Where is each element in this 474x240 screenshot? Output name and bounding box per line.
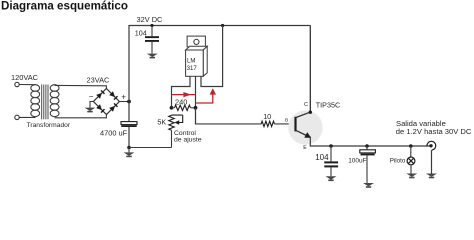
output terminal jack xyxy=(427,141,436,150)
svg-text:Diagrama esquemático: Diagrama esquemático xyxy=(1,0,128,12)
wire C2 bottom lead xyxy=(151,42,153,54)
wire OUT to R3 xyxy=(196,108,262,124)
wire terminal to ground xyxy=(431,150,433,173)
transistor Q1 collector xyxy=(296,26,310,118)
resistor R1 240 xyxy=(175,105,191,110)
red current-flow path B xyxy=(196,93,213,103)
svg-text:de ajuste: de ajuste xyxy=(174,136,202,143)
svg-text:100uF: 100uF xyxy=(348,158,366,165)
ground (main rail) xyxy=(124,152,135,157)
node rail/C2 junction xyxy=(150,24,153,27)
wire secondary top to bridge xyxy=(55,85,107,88)
pin LM317 adj leg (left) xyxy=(172,76,191,108)
svg-text:Piloto: Piloto xyxy=(390,158,406,165)
svg-text:4700 uF: 4700 uF xyxy=(100,129,128,138)
svg-text:104: 104 xyxy=(135,28,147,37)
wire stub to ground xyxy=(128,148,130,153)
ground (C4) xyxy=(363,183,374,188)
wire C2 top lead xyxy=(151,26,153,37)
bridge diode D2 (top-right edge) xyxy=(109,91,117,99)
capacitor C4 100uF (electrolytic) xyxy=(360,150,376,156)
capacitor C1 4700uF (electrolytic) xyxy=(121,122,137,127)
bridge diode D1 (left-top edge) xyxy=(96,90,104,98)
wire C3 bottom lead xyxy=(330,167,332,176)
ground (lamp) xyxy=(406,174,417,179)
capacitor C2 104 xyxy=(145,36,159,42)
lamp DS1 piloto xyxy=(407,157,415,165)
wire LM317 input from rail xyxy=(201,26,223,87)
wire lamp top lead xyxy=(410,146,412,157)
wire bridge left vertex to ground xyxy=(90,102,93,108)
ground (bridge negative) xyxy=(85,108,96,113)
node rail/ground/pot-return junction xyxy=(127,146,131,150)
wire C4 top lead xyxy=(366,146,368,150)
pin LM317 out leg (middle) xyxy=(195,76,197,124)
regulator U1 LM317 tab xyxy=(187,36,205,47)
svg-text:240: 240 xyxy=(175,97,187,106)
transformer T1 secondary winding xyxy=(50,85,59,117)
svg-text:de 1.2V hasta 30V DC: de 1.2V hasta 30V DC xyxy=(396,127,472,136)
red current-flow arrow path A xyxy=(172,94,196,96)
node output/lamp junction xyxy=(409,144,413,148)
svg-text:B: B xyxy=(285,118,288,124)
ground (C2) xyxy=(147,54,158,59)
svg-text:TIP35C: TIP35C xyxy=(316,101,340,110)
wire primary top xyxy=(19,84,35,86)
potentiometer R2 5K xyxy=(169,115,174,130)
ground (C3) xyxy=(326,176,337,181)
resistor R3 10 xyxy=(261,121,274,126)
wire emitter down to output line xyxy=(310,137,429,147)
svg-text:5K: 5K xyxy=(157,117,166,126)
wire lamp bottom lead xyxy=(410,165,412,174)
svg-text:+: + xyxy=(121,93,126,102)
capacitor C3 104 xyxy=(324,161,338,167)
svg-text:317: 317 xyxy=(187,65,198,72)
transistor Q1 emitter with arrow xyxy=(296,130,307,135)
wire pot bottom to return xyxy=(171,130,173,147)
transformer T1 primary winding xyxy=(31,85,40,117)
wire C4 bottom lead xyxy=(366,155,368,183)
wire R3 to base xyxy=(274,123,294,125)
bridge diode D3 (left-bottom edge) xyxy=(96,104,104,112)
node output/C3 junction xyxy=(329,144,333,148)
svg-text:104: 104 xyxy=(315,153,329,162)
svg-text:E: E xyxy=(303,145,307,151)
regulator U1 LM317 body xyxy=(186,46,208,76)
node rail/LM317 input junction xyxy=(221,24,224,27)
terminal J1 top (120VAC) xyxy=(15,82,19,86)
terminal J1 bottom (120VAC) xyxy=(15,115,19,119)
wire C3 top lead xyxy=(330,146,332,161)
svg-text:120VAC: 120VAC xyxy=(11,73,39,82)
wire 32V top rail (horizontal) xyxy=(128,25,310,27)
svg-text:10: 10 xyxy=(263,112,271,121)
node R1 right / OUT junction xyxy=(194,106,198,110)
wire secondary bottom to bridge xyxy=(55,115,107,118)
svg-text:LM: LM xyxy=(187,57,195,64)
transistor Q1 base bar xyxy=(294,117,296,132)
wire rail bottom to pot return xyxy=(129,147,172,149)
svg-text:−: − xyxy=(89,92,94,101)
svg-text:C: C xyxy=(304,102,308,108)
transformer T1 core xyxy=(42,85,48,120)
wire primary bottom xyxy=(19,116,35,118)
wire main DC rail (vertical) xyxy=(128,26,130,148)
bridge diode D4 (bottom-right edge) xyxy=(109,103,117,111)
node bridge+/rail junction xyxy=(127,100,131,104)
bridge rectifier BR1 diamond xyxy=(93,89,119,115)
ground (output) xyxy=(426,174,437,179)
svg-text:32V DC: 32V DC xyxy=(137,15,164,24)
svg-text:Transformador: Transformador xyxy=(27,122,71,129)
pot wiper arrow xyxy=(172,115,183,125)
svg-text:23VAC: 23VAC xyxy=(87,76,111,85)
wire bridge + output to rail xyxy=(119,101,129,103)
node output/C4 junction xyxy=(365,144,369,148)
node ADJ/R1 left junction xyxy=(170,106,174,110)
transistor Q1 body circle xyxy=(288,110,322,144)
